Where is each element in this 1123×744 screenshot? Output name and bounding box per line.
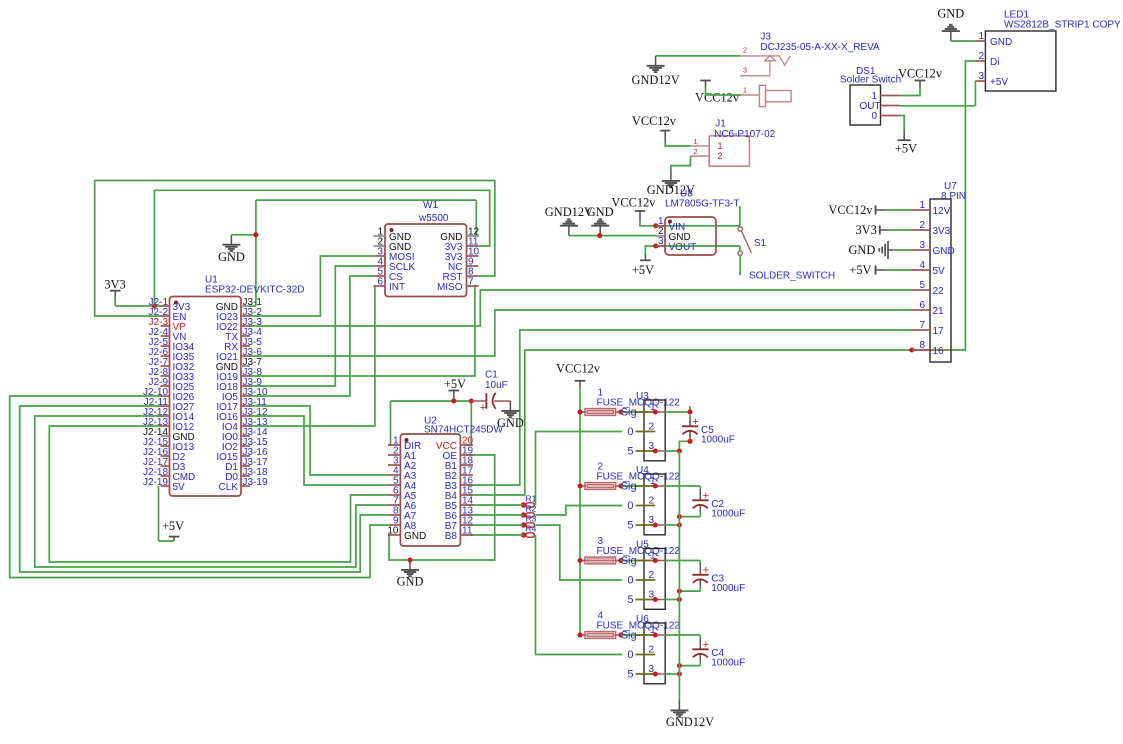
wire C5 bottom to GND12V rail [679,438,690,452]
svg-text:Sig: Sig [621,555,637,567]
wire net B5 to R1 [467,504,523,506]
svg-text:GND: GND [397,575,424,589]
svg-text:VOUT: VOUT [669,242,697,253]
svg-text:5: 5 [919,280,925,291]
svg-text:+: + [692,416,698,428]
junction C4 bottom at rail [677,663,682,668]
junction U4 pin1 [653,484,658,489]
svg-text:GND: GND [933,246,955,257]
wire LED1 pin1 to GND [951,40,976,42]
connector U7 8 PIN [912,181,966,362]
svg-text:INT: INT [389,282,405,293]
svg-text:CLK: CLK [219,482,239,493]
ground GND at U7 pin3 [848,241,912,259]
wire net B4/Di to U7 pin8 '16' [467,61,975,495]
svg-text:2: 2 [649,645,655,656]
svg-text:5: 5 [627,594,633,606]
svg-text:VCC12v: VCC12v [695,91,740,105]
svg-text:1000uF: 1000uF [711,508,745,519]
svg-text:12V: 12V [933,206,951,217]
power VCC12v symbol above fuse column [556,362,601,388]
wire net IO19 to W1 MISO [250,286,479,376]
capacitor C4 1000uF [692,638,745,668]
wire U3 pin3 to rail [665,450,679,452]
junction U6 pin3 [653,672,658,677]
junction at U4 pin3 rail [677,523,682,528]
junction +5V at symbol stem [451,399,456,404]
wire net B8 to R4 [467,534,523,536]
svg-text:1: 1 [743,85,747,94]
junction at U6 fuse right [618,633,623,638]
svg-text:2: 2 [919,220,925,231]
capacitor C3 1000uF [692,564,745,594]
fuse 3 FUSE_MCQQ-122 (U5) [580,536,680,564]
svg-text:VCC12v: VCC12v [898,67,943,81]
junction +5V at VCC branch [469,399,474,404]
svg-text:VCC12v: VCC12v [828,203,873,217]
svg-text:10: 10 [387,526,399,537]
svg-text:+5V: +5V [990,77,1008,88]
svg-text:+: + [703,639,709,651]
junction C2 bottom at rail [677,514,682,519]
svg-text:GND: GND [990,37,1012,48]
fuse 2 FUSE_MCQQ-122 (U4) [580,462,680,490]
svg-text:+: + [703,490,709,502]
junction U3 pin1 [653,410,658,415]
capacitor C5 1000uF [682,415,735,445]
wire S1 terminals [739,206,741,276]
wire DS1 OUT to LED1 +5V [900,81,976,106]
svg-text:+: + [703,564,709,576]
svg-text:5V: 5V [933,266,946,277]
svg-text:J3: J3 [760,32,771,43]
wire U5 pin3 to rail [665,599,679,601]
wire +5V rail to U2 DIR, VCC and C1 [388,401,471,445]
svg-text:J1: J1 [715,119,726,130]
wire U6 pin3 to rail [665,673,679,675]
wire U8 VOUT to S1 bottom terminal [656,246,740,251]
wire R4 to U6 pin '0' [536,535,623,655]
svg-text:+5V: +5V [162,519,184,533]
wire U3 pin1 to capacitor C5 [665,406,690,412]
svg-text:VCC12v: VCC12v [611,196,656,210]
IC W1 w5500 [374,200,480,297]
svg-text:NC6-P107-02: NC6-P107-02 [714,129,776,140]
svg-text:17: 17 [933,326,945,337]
junction at R4 left terminal [521,532,526,537]
wire C3 bottom to GND12V rail [679,586,700,591]
svg-text:0: 0 [627,575,633,587]
junction at U3 fuse right [618,410,623,415]
wire U5 pin1 to capacitor C3 [665,561,700,564]
wire VCC12v rail to fuses [579,388,581,635]
svg-text:GND: GND [937,7,964,21]
ground GND12V at bottom [666,701,714,730]
resistor R3 [526,513,537,527]
wire net IO16 to U2 A4 [250,416,389,485]
svg-text:1000uF: 1000uF [711,583,745,594]
svg-text:6: 6 [919,300,925,311]
power +5V at U7 pin4 [849,263,912,277]
junction C5 top [688,410,693,415]
wire net IO23 to W1 MOSI [250,256,374,316]
svg-text:11: 11 [462,526,473,537]
svg-text:WS2812B_STRIP1 COPY: WS2812B_STRIP1 COPY [1004,20,1121,31]
svg-text:Sig: Sig [621,407,637,419]
wire net GND: U2 pin10 and OE [388,455,495,560]
svg-text:0: 0 [627,426,633,438]
regulator U8 LM7805G-TF3-T [656,189,740,255]
junction at U3 fuse left [578,410,583,415]
power VCC12v at J1 pin1 [632,114,677,141]
connector U5 3 pin [621,540,666,610]
junction U4 pin3 [653,523,658,528]
junction at U5 fuse right [618,558,623,563]
connector U6 3 pin [621,614,666,684]
svg-text:3V3: 3V3 [855,223,876,237]
svg-text:GND12V: GND12V [666,715,714,729]
wire net IO5 to W1 CS [250,276,374,396]
junction at U5 pin3 rail [677,597,682,602]
svg-text:3V3: 3V3 [104,277,125,291]
svg-text:VCC12v: VCC12v [556,362,601,376]
junction U8 VIN [653,223,658,228]
svg-text:0: 0 [871,111,877,122]
svg-text:0: 0 [627,500,633,512]
svg-text:3: 3 [743,66,747,75]
junction at U7 pin8 [909,348,914,353]
wire U8 GND to GND12V/GND symbols [569,235,656,237]
wire net B3 to U7 pin7 '17' [467,330,912,485]
junction U6 pin1 [653,633,658,638]
svg-text:2: 2 [978,51,984,62]
svg-text:SN74HCT245DW: SN74HCT245DW [424,424,503,435]
wire net EN to W1 RST [95,181,495,317]
connector U3 3 pin [621,391,666,461]
ground GND12V at J3 pin2 [632,56,680,87]
svg-text:C1: C1 [485,370,498,381]
svg-text:Sig: Sig [621,630,637,642]
resistor R1 [526,493,537,507]
wire GND net: symbol to J3-1 and W1 pin12 [231,200,478,306]
wire net B6 to R2 [467,514,523,516]
svg-text:OUT: OUT [860,101,881,112]
svg-text:SOLDER_SWITCH: SOLDER_SWITCH [749,271,835,282]
wire U6 pin1 to capacitor C4 [665,635,700,638]
wire net IO26 to U2 A8 [10,396,388,578]
ground GND12V left of U8 [545,205,593,235]
svg-text:21: 21 [933,306,945,317]
junction U3 pin3 [653,449,658,454]
connector J3 DCJ235-05-A-XX-X_REVA barrel jack [740,32,880,107]
junction GND symbols [597,233,602,238]
svg-text:8: 8 [919,340,925,351]
svg-text:B8: B8 [445,531,458,542]
junction C5 bottom [688,439,693,444]
svg-text:+5V: +5V [849,263,871,277]
svg-text:1: 1 [693,137,697,146]
power VCC12v at DS1 pin1 [898,67,943,88]
svg-text:5: 5 [627,520,633,532]
junction GND net at symbol [253,232,258,237]
svg-text:6: 6 [377,277,383,288]
svg-text:8 PIN: 8 PIN [941,191,966,202]
svg-text:GND: GND [218,250,245,264]
wire net IO27 to U2 A7 [20,406,388,572]
ground GND left of U8 [587,205,614,235]
ground GND below U2 [397,560,424,589]
switch DS1 Solder Switch [840,66,901,125]
svg-text:DCJ235-05-A-XX-X_REVA: DCJ235-05-A-XX-X_REVA [760,42,880,53]
wire net IO22 to U7 pin5 '22' [250,290,913,326]
power VCC12v at U7 pin1 [828,203,912,217]
junction at U4 fuse right [618,484,623,489]
junction at U6 pin3 rail [677,672,682,677]
wire net IO12 to U2 A5 [49,426,388,562]
svg-text:3V3: 3V3 [933,226,951,237]
power +5V below DS1 [895,132,917,156]
svg-text:4: 4 [919,260,925,271]
svg-text:2: 2 [718,151,723,161]
junction at J2-1 3V3 [152,304,157,309]
svg-text:S1: S1 [754,238,767,249]
svg-text:J2-19: J2-19 [143,477,168,488]
junction at U3 pin3 rail [677,449,682,454]
LED connector LED1 WS2812B_STRIP1 COPY [975,10,1121,92]
wire VCC12v to U8 VIN and S1 [640,222,740,226]
ground GND at C1 [497,401,524,430]
svg-text:J3-19: J3-19 [243,477,268,488]
wire R3 to U5 pin '0' [536,525,623,580]
svg-text:+5V: +5V [444,377,466,391]
wire DS1 pin0 to +5V [900,116,905,132]
svg-text:+5V: +5V [895,142,917,156]
svg-text:5: 5 [627,669,633,681]
power VCC12v at J3 pin1 [695,81,740,105]
junction C3 bottom at rail [677,589,682,594]
wire DS1 pin1 to VCC12v [900,88,920,96]
power 3V3 at U7 pin2 [855,223,912,237]
svg-text:GND: GND [404,531,426,542]
svg-text:Solder Switch: Solder Switch [840,75,901,86]
svg-text:VCC12v: VCC12v [632,114,677,128]
capacitor C2 1000uF [692,489,745,519]
power 3V3 symbol at U1 pin J2-1 [104,277,161,306]
junction U8 VOUT [653,244,658,249]
IC U2 SN74HCT245DW [387,415,503,546]
power VCC12v symbol above U8 [611,196,656,222]
wire J1 pin1 to VCC12v [665,141,690,146]
junction at U6 fuse left [578,633,583,638]
wire GND12V rail right of capacitors [678,451,680,701]
svg-text:7: 7 [468,277,474,288]
junction U5 pin1 [653,558,658,563]
svg-text:1000uF: 1000uF [701,434,735,445]
svg-text:2: 2 [743,45,747,54]
svg-text:3: 3 [919,240,925,251]
svg-text:w5500: w5500 [418,213,449,224]
svg-text:GND: GND [587,205,614,219]
svg-text:7: 7 [919,320,925,331]
power +5V symbol below U8 [632,255,654,277]
wire net B7 to R3 [467,524,523,526]
svg-text:3: 3 [658,236,664,247]
wire net IO18 to W1 SCLK [250,266,374,386]
IC U1 ESP32-DEVKITC-32D [143,275,305,497]
svg-text:1000uF: 1000uF [711,657,745,668]
wire J1 pin2 to GND12V [671,156,691,171]
svg-text:+5V: +5V [632,263,654,277]
wire net IO17 to U2 A3 [250,406,389,475]
svg-text:R4: R4 [526,523,537,533]
svg-text:5V: 5V [173,482,186,493]
svg-text:2: 2 [649,570,655,581]
power +5V symbol below U1 [159,486,185,541]
switch S1 SOLDER_SWITCH [738,227,835,282]
junction at U5 fuse left [578,558,583,563]
junction at R1 left terminal [521,502,526,507]
wire R2 to U4 pin '0' [536,506,623,516]
svg-text:Sig: Sig [621,481,637,493]
fuse 1 FUSE_MCQQ-122 (U3) [580,388,680,416]
wire net IO21 to U7 pin6 '21' [250,310,913,356]
ground GND12V below J1 [647,171,695,197]
svg-text:GND: GND [848,243,875,257]
svg-text:LM7805G-TF3-T: LM7805G-TF3-T [665,199,739,210]
svg-text:2: 2 [649,496,655,507]
junction at R3 left terminal [521,522,526,527]
junction GND below U2 [408,558,413,563]
capacitor C1 10uF [471,370,510,415]
junction U5 pin3 [653,597,658,602]
wire net 3V3 to W1 pin11 [154,190,489,306]
wire J3 pin1 to VCC12v [706,88,741,96]
svg-text:22: 22 [933,286,945,297]
connector U4 3 pin [621,465,666,535]
svg-text:W1: W1 [423,200,438,211]
svg-text:1: 1 [718,141,723,151]
junction at R2 left terminal [521,512,526,517]
resistor R4 [526,523,537,537]
svg-text:+: + [480,402,486,414]
connector J1 NC6-P107-02 [691,119,776,167]
svg-text:MISO: MISO [437,282,463,293]
power +5V symbol above U2 [444,377,466,401]
ground GND above LED1 [937,7,964,42]
svg-text:ESP32-DEVKITC-32D: ESP32-DEVKITC-32D [205,285,304,296]
wire net IO4 to W1 INT [250,286,375,426]
svg-text:1: 1 [919,200,925,211]
svg-text:5: 5 [627,446,633,458]
svg-text:0: 0 [627,649,633,661]
svg-text:16: 16 [933,346,945,357]
svg-text:10uF: 10uF [485,380,508,391]
svg-text:1: 1 [978,31,984,42]
fuse 4 FUSE_MCQQ-122 (U6) [580,611,680,639]
wire R1 to U3 pin '0' [536,432,623,506]
wire C2 bottom to GND12V rail [679,512,700,517]
svg-text:3: 3 [978,71,984,82]
svg-text:GND12V: GND12V [632,73,680,87]
svg-text:R3: R3 [526,513,537,523]
wire net IO14 to U2 A6 [35,416,388,567]
wire U4 pin1 to capacitor C2 [665,486,700,489]
junction at U4 fuse left [578,484,583,489]
wire J3 pin2 to GND12V [656,55,741,57]
wire U8 VOUT to +5V [645,246,655,256]
resistor R2 [526,503,537,517]
svg-text:Di: Di [990,57,999,68]
svg-text:2: 2 [693,147,697,156]
svg-text:2: 2 [649,422,655,433]
wire U4 pin3 to rail [665,524,679,526]
ground GND near U1/W1 [218,235,245,264]
wire C4 bottom to GND12V rail [679,661,700,666]
